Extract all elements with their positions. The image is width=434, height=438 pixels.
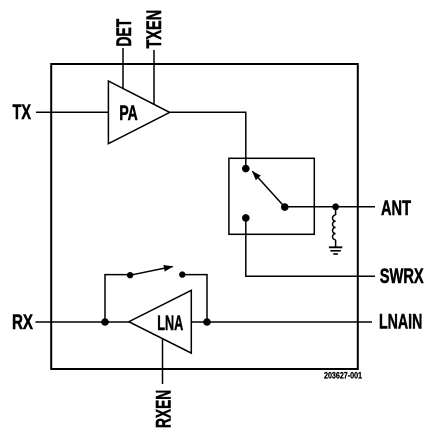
svg-text:LNAIN: LNAIN — [379, 309, 422, 333]
svg-text:RX: RX — [12, 310, 33, 334]
svg-text:DET: DET — [112, 19, 136, 47]
svg-text:ANT: ANT — [381, 196, 411, 220]
svg-text:TX: TX — [13, 100, 32, 124]
svg-text:RXEN: RXEN — [151, 390, 175, 428]
svg-text:SWRX: SWRX — [380, 264, 424, 288]
svg-text:PA: PA — [119, 101, 137, 125]
svg-text:203627-001: 203627-001 — [324, 371, 363, 382]
svg-text:LNA: LNA — [157, 311, 183, 335]
svg-text:TXEN: TXEN — [142, 10, 166, 49]
